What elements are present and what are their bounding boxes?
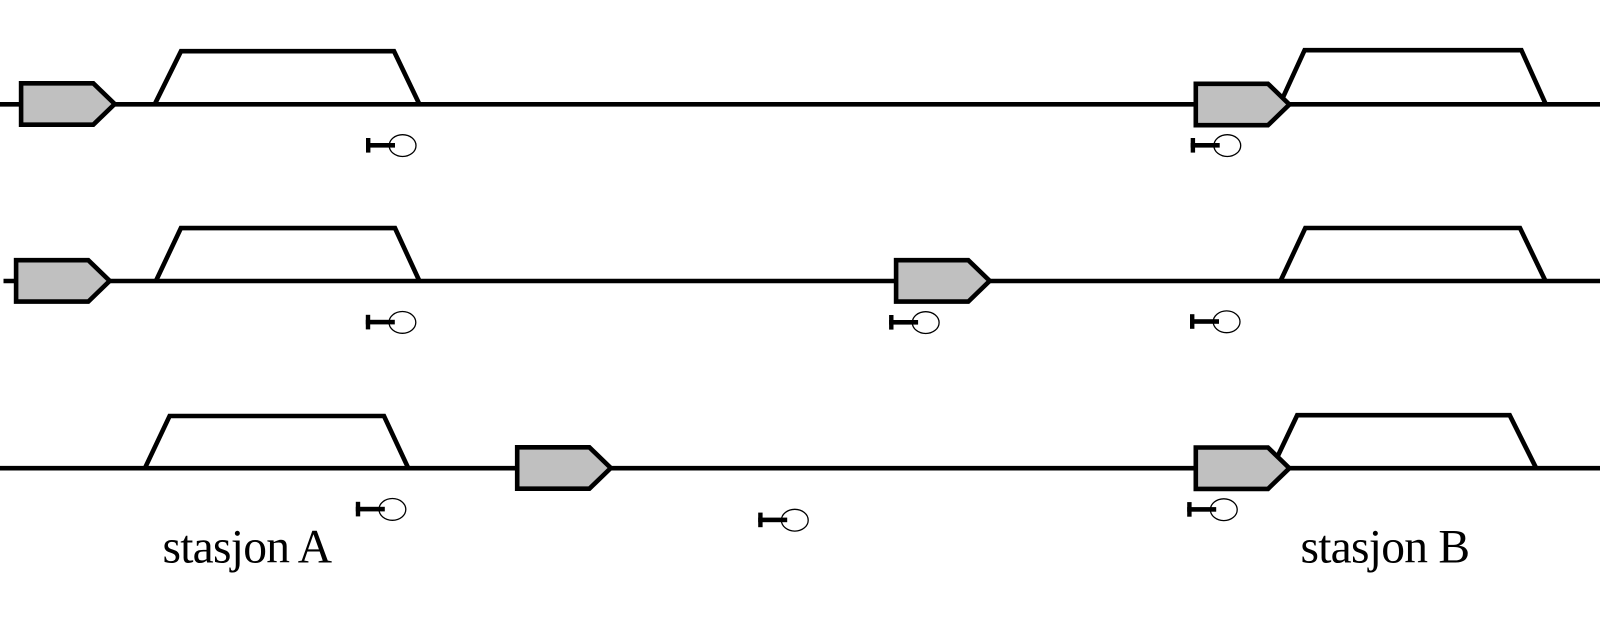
row 1 signal at stasjon A	[366, 135, 416, 157]
row 2 train mid-line	[896, 260, 990, 301]
row 2 signal at stasjon B	[1190, 311, 1240, 333]
row 1 signal at stasjon B	[1191, 135, 1241, 157]
row 3 train at stasjon B	[1196, 448, 1290, 489]
row 3 signal at stasjon B	[1187, 499, 1237, 521]
svg-text:stasjon A: stasjon A	[163, 522, 332, 574]
row 3 signal mid-line	[758, 509, 808, 531]
row 3 passing loop at stasjon A	[145, 416, 408, 468]
row 3 passing loop at stasjon B	[1272, 415, 1536, 468]
row 2 signal mid-line	[889, 312, 939, 334]
row 2 passing loop at stasjon A	[156, 228, 420, 281]
row 3 train mid-line	[517, 447, 611, 488]
row 1 passing loop at stasjon B	[1280, 50, 1546, 104]
row 1 passing loop at stasjon A	[155, 51, 420, 104]
row 3 signal at stasjon A	[356, 499, 406, 521]
row 3 main track line	[0, 466, 1600, 471]
svg-text:stasjon B: stasjon B	[1301, 522, 1470, 574]
row 2 train leaving stasjon A	[16, 260, 110, 301]
row 2 main track line	[4, 279, 1600, 284]
row 1 train at stasjon A	[21, 83, 115, 124]
row 2 passing loop at stasjon B	[1281, 228, 1546, 281]
row 1 train at stasjon B	[1196, 84, 1290, 125]
row 2 signal at stasjon A	[366, 312, 416, 334]
row 1 main track line	[0, 102, 1600, 107]
